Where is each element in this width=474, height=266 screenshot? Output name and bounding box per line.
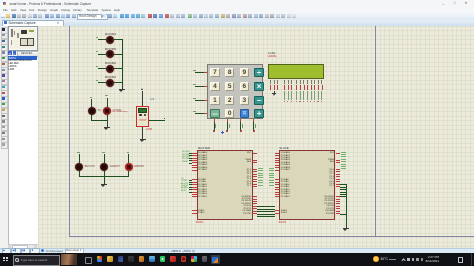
LCD pin 14	[321, 80, 322, 84]
ground slave	[345, 226, 348, 228]
net label gap right 5	[269, 179, 274, 182]
wire keypad row 3	[195, 99, 204, 102]
net label master ADMIN	[181, 187, 188, 189]
LCD pin 2	[274, 80, 275, 84]
LCD pin 10	[307, 80, 308, 84]
net label gap left 2	[258, 172, 263, 175]
net label master ROOM3	[182, 156, 190, 158]
wire bga drop	[103, 176, 106, 181]
taskbar icon	[97, 256, 103, 262]
wire slave right 5	[340, 193, 346, 196]
net label master GUEST	[181, 185, 188, 187]
MASTER pins P0.0-P0.7 left	[192, 152, 197, 155]
label U1	[150, 97, 154, 101]
net label gap right 6	[269, 181, 274, 184]
LCD pin 11	[311, 80, 312, 84]
keypad button +	[254, 109, 264, 118]
keypad button 7	[210, 68, 220, 77]
LCD pin 8	[300, 80, 301, 84]
ground room leds	[121, 87, 124, 89]
keypad button ON/C	[210, 109, 220, 118]
microcontroller U2 MASTER	[198, 146, 211, 150]
taskbar icon	[160, 256, 166, 262]
ground bga	[103, 181, 106, 183]
LED ROOM4	[105, 32, 116, 36]
net label gap left 3	[258, 174, 263, 177]
LCD pin 1	[270, 80, 271, 84]
sidebar horizontal scrollbar	[8, 244, 40, 250]
sheet border bottom	[69, 235, 474, 238]
wire TV to COND	[91, 119, 107, 122]
wire right of ROOM2	[114, 67, 122, 70]
SLAVE pin name labels	[281, 152, 290, 171]
wire slave right 1	[340, 183, 346, 186]
wire master-slave 5	[257, 215, 275, 218]
net label gap right 1	[269, 169, 274, 172]
start button	[3, 257, 8, 262]
keypad button 1	[210, 96, 220, 105]
wire left of ROOM4	[98, 38, 107, 41]
microcontroller U3 SLAVE	[279, 146, 288, 150]
net label gap right 2	[269, 172, 274, 175]
ground U1	[141, 137, 144, 139]
wire slave right 2	[340, 186, 346, 189]
SLAVE pins P3.0-P3.7 right	[336, 195, 341, 198]
wire BLOCK bottom	[78, 171, 81, 177]
net label master TEMP	[182, 161, 188, 163]
MASTER pins XTAL1/XTAL2 left	[192, 209, 197, 212]
ground LCD vss	[273, 91, 276, 93]
tray	[401, 258, 406, 263]
SLAVE pins XTAL1/XTAL2 left	[275, 209, 280, 212]
wire room bus vertical	[121, 39, 124, 87]
wire master-slave 1	[257, 205, 275, 208]
keypad button 9	[240, 68, 250, 77]
taskbar icon	[149, 256, 155, 262]
sheet border left	[68, 26, 71, 237]
net label gap right 7	[269, 184, 274, 187]
LED GUEST	[100, 163, 108, 171]
taskbar icon	[139, 256, 145, 262]
keypad button 2	[225, 96, 235, 105]
LED ADMIN	[125, 163, 133, 171]
node marker	[221, 131, 224, 134]
keypad button 4	[210, 82, 220, 91]
wire U1 bottom	[141, 127, 144, 138]
wire keypad col 3	[239, 119, 242, 122]
wire master-slave 2	[257, 208, 275, 211]
taskbar icon	[170, 256, 176, 262]
LCD pin 13	[318, 80, 319, 84]
net label slave right 6	[341, 165, 346, 168]
keypad button 0	[225, 109, 235, 118]
net label gap right 4	[269, 176, 274, 179]
menu bar	[0, 7, 474, 13]
active app highlight	[211, 255, 220, 264]
keypad button &#8722;	[254, 96, 264, 105]
wire left of ROOM1	[98, 81, 107, 84]
SLAVE pin RST right	[336, 152, 341, 155]
taskbar icon grey	[85, 257, 92, 264]
taskbar icon	[181, 256, 187, 262]
schematic canvas grid	[38, 26, 474, 248]
title bar	[0, 0, 474, 8]
MASTER pins P2.0-P2.7 left	[192, 178, 197, 181]
MASTER pins P3.0-P3.7 right	[253, 195, 258, 198]
LED TV	[88, 107, 96, 115]
main toolbar	[0, 13, 474, 21]
net label gap left 1	[258, 169, 263, 172]
devices list	[8, 56, 40, 246]
P L buttons + DEVICES header	[8, 51, 12, 55]
wire COND top	[106, 98, 109, 108]
net label slave right 3	[341, 158, 346, 161]
wire keypad col 4	[252, 119, 255, 122]
net label gap left 0	[258, 167, 263, 170]
LED BLOCK	[75, 163, 83, 171]
wire ADMIN bottom	[127, 171, 130, 177]
net label master TV	[181, 178, 184, 180]
net label master ROOM4	[182, 158, 190, 160]
wire slave right 6	[340, 195, 346, 198]
ground TV/COND	[106, 125, 109, 127]
wire right of ROOM1	[114, 81, 122, 84]
keypad button &#247;	[254, 68, 264, 77]
wire slave bottom right	[340, 213, 346, 216]
sidebar background	[8, 26, 38, 249]
net label slave right 1	[341, 153, 346, 156]
wire keypad row 1	[195, 71, 204, 74]
net label slave right 7	[341, 167, 346, 170]
SLAVE pins P0.0-P0.7 left	[275, 152, 280, 155]
LCD screen	[268, 64, 324, 78]
left mode toolbar	[0, 26, 9, 249]
wire TV bottom	[90, 115, 93, 120]
net label master ROOM1	[182, 151, 190, 153]
LED ROOM3	[105, 47, 116, 51]
wire left of ROOM2	[98, 67, 107, 70]
net label master BUZZ	[181, 190, 186, 192]
MASTER pins PSEN/ALE right	[253, 159, 258, 162]
MASTER pin name labels	[198, 152, 207, 171]
keypad KP1 body	[207, 64, 264, 119]
SLAVE pins PSEN/ALE right	[336, 159, 341, 162]
wire keypad col 2	[226, 119, 229, 122]
taskbar thumbnail	[61, 254, 77, 265]
LCD pin 9	[303, 80, 304, 84]
tab bar	[0, 20, 474, 27]
wire COND bottom	[106, 115, 109, 125]
keypad button =	[240, 109, 250, 118]
MASTER pins P1.0-P1.7 right	[253, 168, 258, 171]
MASTER pin RST right	[253, 152, 258, 155]
wire slave ground vertical	[345, 184, 348, 225]
wire right of ROOM3	[114, 53, 122, 56]
net label gap left 7	[258, 184, 263, 187]
overview panel	[8, 26, 38, 51]
wire bga join	[79, 175, 129, 178]
wire keypad col 1	[213, 119, 216, 122]
LCD pin 6	[291, 80, 292, 84]
net label gap left 4	[258, 176, 263, 179]
wire right of ROOM4	[114, 38, 122, 41]
LCD pin 4	[284, 80, 285, 84]
power vcc wire for U1	[141, 91, 144, 106]
wire GUEST bottom	[103, 171, 106, 177]
net label slave right 0	[341, 151, 346, 154]
SLAVE pins P1.0-P1.7 right	[336, 168, 341, 171]
wire GUEST top	[103, 154, 106, 163]
net label slave right 2	[341, 155, 346, 158]
keypad button 3	[240, 96, 250, 105]
keypad button &#215;	[254, 82, 264, 91]
net label slave right 5	[341, 163, 346, 166]
net label master ROOM2	[182, 154, 190, 156]
sheet border right	[374, 26, 377, 237]
wire BLOCK top	[78, 154, 81, 163]
net label master BLOCK	[181, 183, 188, 185]
status bar	[0, 248, 474, 255]
wire left of ROOM3	[98, 53, 107, 56]
LED ROOM2	[105, 61, 116, 65]
taskbar	[0, 253, 474, 266]
wire slave right 3	[340, 188, 346, 191]
sensor U1 LM35 body	[136, 106, 149, 127]
taskbar icon	[107, 256, 113, 262]
weather	[373, 256, 378, 261]
wire ADMIN top	[127, 154, 130, 163]
wire U1 vout right	[149, 119, 165, 122]
LCD pin 12	[314, 80, 315, 84]
net label master COND	[181, 180, 187, 182]
taskbar icon	[118, 256, 124, 262]
wire keypad row 2	[195, 85, 204, 88]
wire keypad row 4	[195, 112, 204, 115]
net label gap left 6	[258, 181, 263, 184]
net label gap right 3	[269, 174, 274, 177]
LED ROOM1	[105, 75, 116, 79]
LCD pin 7	[296, 80, 297, 84]
value text LM35	[146, 128, 152, 131]
net label slave right 4	[341, 160, 346, 163]
net label gap left 5	[258, 179, 263, 182]
taskbar icon	[202, 256, 208, 262]
keypad button 5	[225, 82, 235, 91]
keypad button 8	[225, 68, 235, 77]
LED COND	[103, 107, 111, 115]
taskbar icon	[128, 256, 134, 262]
LCD pin 5	[288, 80, 289, 84]
wire master-slave 3	[257, 210, 275, 213]
keypad button 6	[240, 82, 250, 91]
search box	[13, 255, 61, 265]
wire master-slave 4	[257, 213, 275, 216]
LCD1 labels	[268, 51, 276, 55]
LCD pin 3	[277, 80, 278, 84]
net label gap right 0	[269, 167, 274, 170]
SLAVE pins P2.0-P2.7 left	[275, 178, 280, 181]
wire slave right 4	[340, 191, 346, 194]
wire TV top	[90, 99, 93, 107]
taskbar icon	[191, 256, 197, 262]
